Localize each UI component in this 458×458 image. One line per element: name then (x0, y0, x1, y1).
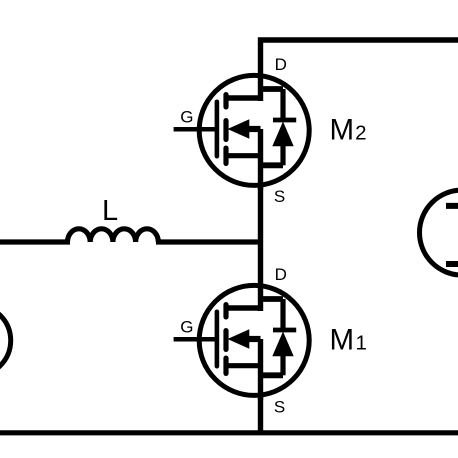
inductor L (68, 229, 159, 242)
svg-text:S: S (274, 187, 285, 206)
wire: bottom return wire (0, 430, 458, 435)
voltage source (input, left, partially visible) (0, 305, 11, 376)
svg-text:M2: M2 (330, 114, 367, 147)
svg-text:G: G (180, 317, 193, 336)
wire: top output wire from M2 drain corner to right edge (261, 40, 458, 101)
wire: inductor to switch node (156, 239, 263, 244)
wire: switch node vertical (M2 source to M1 drain) (258, 183, 263, 311)
svg-text:L: L (102, 195, 118, 227)
transistor M2 (N-MOSFET with body diode) (174, 75, 310, 190)
svg-text:D: D (275, 55, 287, 74)
svg-text:D: D (275, 265, 287, 284)
transistor M1 (N-MOSFET with body diode) (174, 285, 310, 400)
wire: M1 source to bottom return wire (258, 395, 263, 433)
voltage source (output, right, partially visible) (420, 190, 458, 275)
svg-text:G: G (180, 107, 193, 126)
svg-text:M1: M1 (330, 324, 367, 357)
wire: input wire from left edge to inductor (0, 239, 70, 244)
svg-text:S: S (274, 397, 285, 416)
